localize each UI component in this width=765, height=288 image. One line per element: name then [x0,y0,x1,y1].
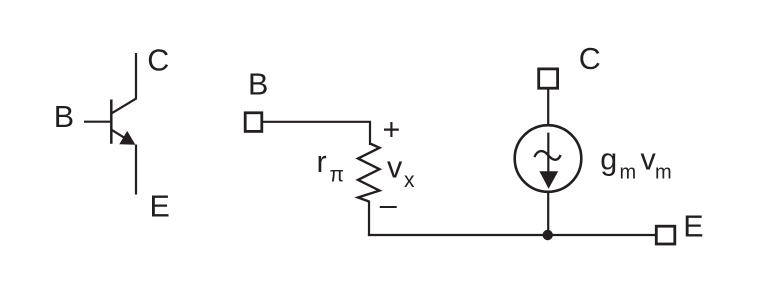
svg-text:C: C [147,44,169,78]
transistor Q1 base bar [110,100,113,144]
svg-text:–: – [380,188,397,222]
svg-text:v: v [387,151,403,185]
current source arrow shaft [547,133,549,174]
terminal C (open square) [539,69,558,88]
svg-text:π: π [330,164,345,187]
svg-text:r: r [317,145,327,179]
svg-text:m: m [620,162,637,184]
resistor R1 (r_pi) zigzag [358,144,380,202]
svg-text:+: + [383,113,401,147]
svg-text:B: B [248,68,268,102]
junction node dot [543,230,553,240]
wire from current source to bottom rail [547,192,549,237]
current source tilde [534,151,560,160]
dependent current source (circle) [515,125,582,192]
wire bottom rail [368,234,656,236]
terminal E (open square) [656,226,675,244]
transistor Q1 emitter arrow [119,131,135,145]
svg-text:g: g [600,143,617,177]
wire emitter of Q1 [111,129,136,194]
transistor Q1 (BJT symbol) [84,53,136,195]
svg-text:B: B [54,100,74,134]
wire base lead of Q1 [84,121,111,123]
svg-text:C: C [579,42,601,76]
svg-text:E: E [150,189,170,223]
wire resistor bottom lead [368,201,370,237]
svg-text:E: E [683,210,703,244]
terminal B (open square) [245,113,262,132]
svg-text:x: x [404,169,415,192]
svg-text:m: m [655,162,672,184]
current source arrowhead [539,171,558,189]
wire from terminal B to resistor top [263,122,370,145]
wire from terminal C to current source [547,89,549,126]
wire collector of Q1 [111,53,136,114]
